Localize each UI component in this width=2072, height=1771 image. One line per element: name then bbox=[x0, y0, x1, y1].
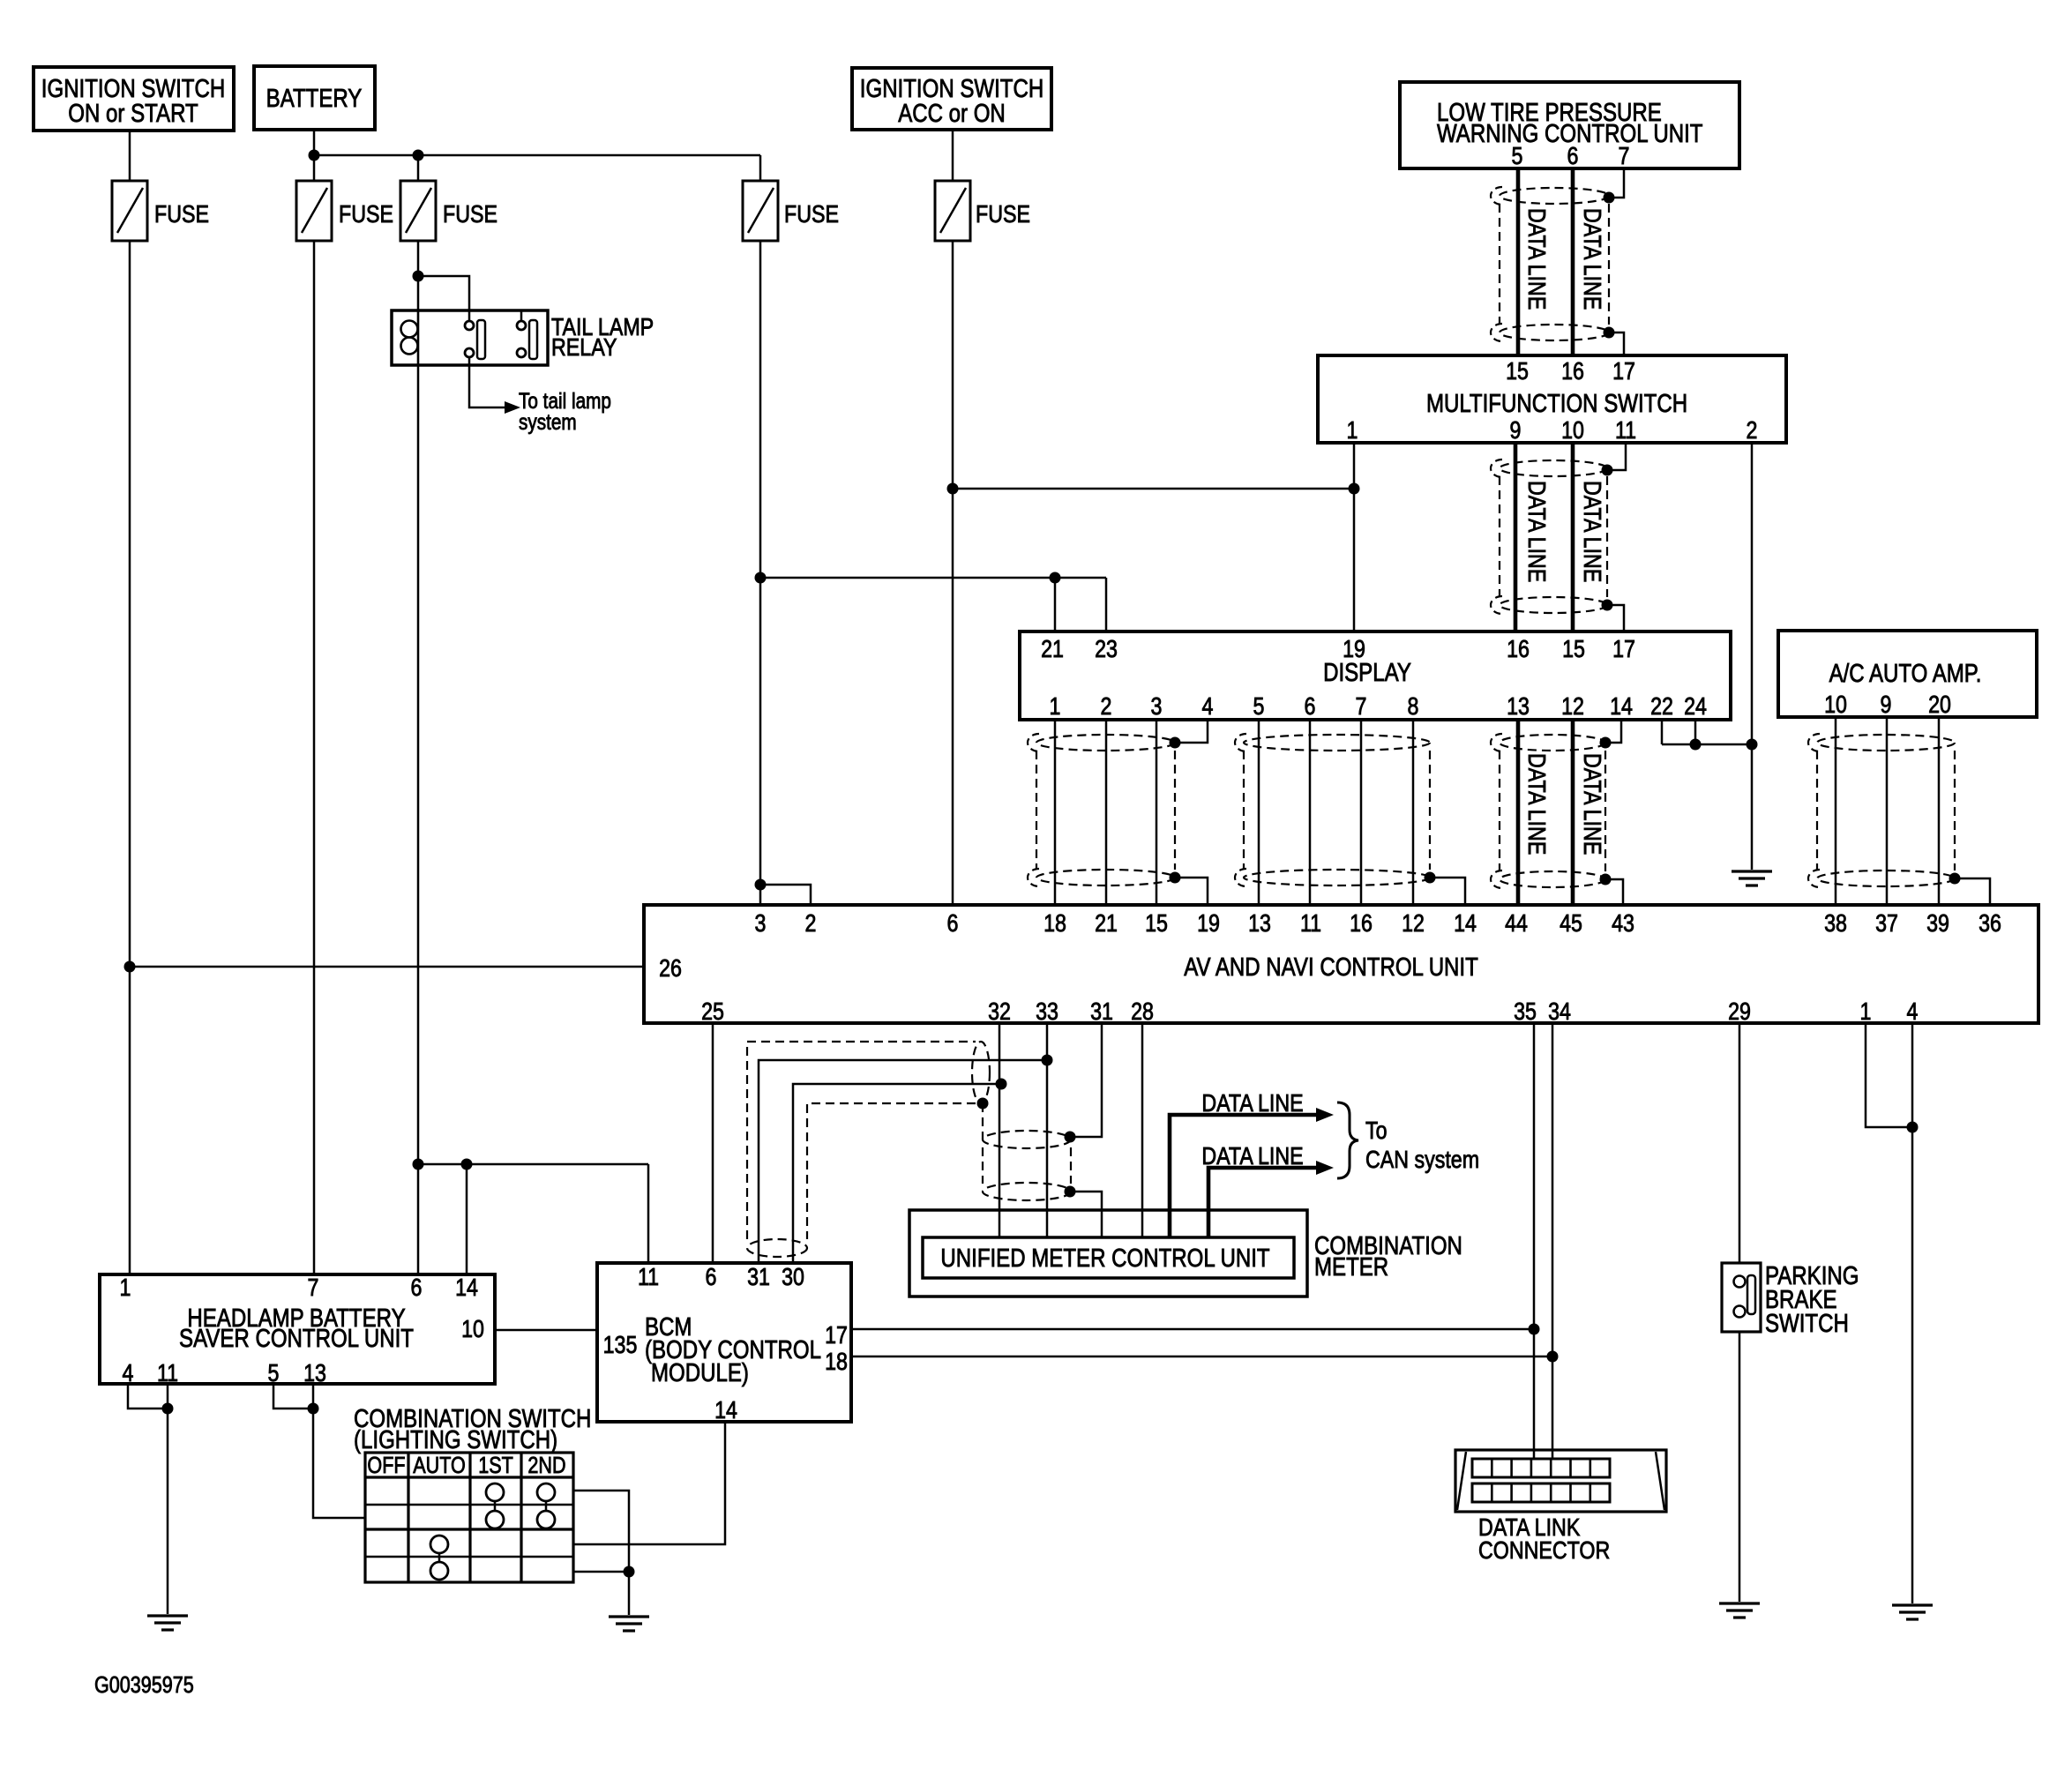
wire: ACC rail down to AV pin 6 bbox=[952, 241, 954, 905]
wire: CAN data line 2 (thick) with arrow bbox=[1208, 1168, 1316, 1237]
wire: net y=1320 relay-coil rail to BCM 11 and headlamp 14 bbox=[418, 1163, 648, 1166]
svg-text:6: 6 bbox=[947, 910, 959, 937]
svg-text:6: 6 bbox=[411, 1274, 423, 1301]
wire: corner down to display pin 23 bbox=[1105, 578, 1108, 631]
junction: headlamp 13 node bbox=[308, 1403, 319, 1415]
wire: BCM 14 to lighting switch auto contact bbox=[573, 1422, 725, 1544]
wire: data line display 12 to AV 45 (thick) bbox=[1571, 720, 1575, 905]
svg-text:DATA LINE: DATA LINE bbox=[1578, 208, 1604, 310]
svg-text:25: 25 bbox=[701, 998, 724, 1025]
box: AV AND NAVI CONTROL UNIT bbox=[644, 905, 2038, 1023]
wire: display 22 stub bbox=[1661, 720, 1664, 744]
svg-text:system: system bbox=[519, 409, 577, 434]
wire: shield B bottom to AV 14 bbox=[1430, 878, 1465, 905]
junction: shield bottom bbox=[1604, 327, 1615, 339]
fuse F5 (ignition ACC or ON) bbox=[935, 181, 1030, 241]
svg-text:11: 11 bbox=[1300, 910, 1321, 937]
junction: BCM18/AV34 bbox=[1547, 1351, 1559, 1363]
wire: multifunction 2 down to ground bbox=[1751, 443, 1754, 870]
svg-text:8: 8 bbox=[1408, 693, 1419, 720]
svg-text:30: 30 bbox=[782, 1264, 804, 1290]
junction: shield-to-shield link bbox=[977, 1098, 989, 1110]
wire: down to ground bbox=[628, 1572, 631, 1615]
wire: AV 32 down to meter bbox=[999, 1023, 1001, 1237]
svg-text:16: 16 bbox=[1350, 910, 1373, 937]
junction: shield bottom (multi-display) bbox=[1602, 600, 1613, 611]
svg-text:ACC or ON: ACC or ON bbox=[898, 99, 1006, 128]
svg-text:10: 10 bbox=[1561, 417, 1584, 444]
svg-text:22: 22 bbox=[1650, 693, 1673, 720]
svg-text:45: 45 bbox=[1560, 910, 1582, 937]
wire: AV 33 down to meter bbox=[1046, 1023, 1049, 1237]
junction: rail x862 at y655 bbox=[755, 572, 767, 584]
svg-text:A/C AUTO AMP.: A/C AUTO AMP. bbox=[1829, 659, 1982, 688]
svg-text:14: 14 bbox=[455, 1274, 478, 1301]
ground: multifunction switch return bbox=[1732, 871, 1772, 885]
wire: shield E bottom into combination meter bbox=[1070, 1192, 1102, 1237]
svg-text:FUSE: FUSE bbox=[976, 201, 1030, 228]
wire: multifunction 1 down to display 19 bbox=[1353, 443, 1356, 631]
svg-text:ON or START: ON or START bbox=[68, 99, 198, 128]
junction: shield top (multi-display) bbox=[1602, 465, 1613, 476]
svg-text:CONNECTOR: CONNECTOR bbox=[1478, 1537, 1610, 1564]
wire: branch to relay contact bbox=[418, 276, 469, 310]
svg-text:26: 26 bbox=[659, 955, 682, 982]
wire: AV 25 to BCM 6 bbox=[712, 1023, 714, 1263]
wire: illumination feed y=655 from fuse F4 to display 21/23 bbox=[760, 577, 1106, 579]
wire: display 7 to AV 16 bbox=[1360, 720, 1363, 905]
svg-text:3: 3 bbox=[755, 910, 767, 937]
svg-text:21: 21 bbox=[1041, 636, 1064, 662]
svg-text:31: 31 bbox=[1090, 998, 1113, 1025]
wire: headlamp 11 down to ground bbox=[167, 1384, 169, 1614]
svg-text:13: 13 bbox=[303, 1360, 326, 1386]
wire: display 5 to AV 13 bbox=[1258, 720, 1260, 905]
svg-text:SAVER CONTROL UNIT: SAVER CONTROL UNIT bbox=[179, 1324, 414, 1353]
switch: COMBINATION SWITCH (LIGHTING SWITCH) table bbox=[354, 1404, 591, 1582]
svg-text:13: 13 bbox=[1507, 693, 1530, 720]
wire: multifunction 11 shield drain bbox=[1607, 443, 1626, 470]
wire: data line low-tire 5 to multifunction 15 (thick) bbox=[1516, 168, 1521, 355]
svg-text:19: 19 bbox=[1343, 636, 1365, 662]
wire: parking brake switch to ground bbox=[1739, 1332, 1741, 1602]
box: MULTIFUNCTION SWITCH bbox=[1318, 355, 1786, 443]
junction: at AV 32 wire bbox=[996, 1079, 1007, 1090]
junction: x474 y1320 bbox=[413, 1159, 424, 1170]
junction: BCM17/AV35 bbox=[1529, 1324, 1540, 1335]
svg-text:DATA LINE: DATA LINE bbox=[1578, 753, 1604, 855]
wire: lighting switch row1 to ground rail bbox=[573, 1491, 629, 1572]
svg-text:36: 36 bbox=[1978, 910, 2001, 937]
svg-text:OFF: OFF bbox=[367, 1453, 405, 1478]
junction: shield E top bbox=[1065, 1132, 1076, 1143]
svg-text:17: 17 bbox=[1612, 636, 1635, 662]
wire: data line low-tire 6 to multifunction 16 (thick) bbox=[1571, 168, 1575, 355]
wire: low-tire pin 7 shield drain top bbox=[1609, 168, 1624, 198]
wire: AV 35 down to data link connector bbox=[1533, 1023, 1536, 1459]
junction: headlamp 11 ground node bbox=[162, 1403, 174, 1415]
svg-text:34: 34 bbox=[1548, 998, 1571, 1025]
wire: AV 28 into combination meter bbox=[1141, 1023, 1144, 1237]
wire: down to display pin 21 bbox=[1054, 578, 1057, 631]
svg-text:DISPLAY: DISPLAY bbox=[1323, 658, 1411, 687]
wire: display 8 to AV 12 bbox=[1412, 720, 1415, 905]
wire: display 6 to AV 11 bbox=[1309, 720, 1312, 905]
svg-text:2ND: 2ND bbox=[527, 1453, 565, 1478]
junction: shield B bottom bbox=[1425, 872, 1436, 884]
junction: shield E bottom bbox=[1065, 1186, 1076, 1198]
svg-text:23: 23 bbox=[1095, 636, 1118, 662]
wire: lighting switch row4 to ground rail bbox=[573, 1571, 629, 1573]
svg-text:6: 6 bbox=[1305, 693, 1316, 720]
svg-text:16: 16 bbox=[1507, 636, 1530, 662]
wire: bus drop to fuse F4 bbox=[759, 155, 762, 181]
wire: AV 1 to AV 4 link bbox=[1866, 1023, 1912, 1127]
box: A/C AUTO AMP. bbox=[1778, 631, 2037, 717]
wire: ignition ON/START to fuse F1 bbox=[129, 131, 131, 181]
svg-text:4: 4 bbox=[1202, 693, 1214, 720]
svg-text:CAN system: CAN system bbox=[1365, 1147, 1479, 1173]
shield tube L-shaped (BCM 31/30 wires) bbox=[747, 1042, 990, 1257]
switch: PARKING BRAKE SWITCH bbox=[1722, 1261, 1859, 1338]
shield tube E (AV 32/33 wires) bbox=[983, 1131, 1071, 1200]
junction: shield A top bbox=[1170, 737, 1181, 749]
wire: a/c 10 to AV 38 bbox=[1835, 717, 1837, 905]
svg-text:5: 5 bbox=[268, 1360, 280, 1386]
junction: rail x147 to AV pin 26 line bbox=[124, 961, 136, 973]
svg-text:UNIFIED METER CONTROL UNIT: UNIFIED METER CONTROL UNIT bbox=[940, 1244, 1269, 1273]
shield tube A (display 1-3) bbox=[1028, 734, 1175, 886]
box: HEADLAMP BATTERY SAVER CONTROL UNIT bbox=[100, 1274, 495, 1384]
wire: AV 31 to shield E top bbox=[1070, 1023, 1102, 1137]
svg-text:1: 1 bbox=[1347, 417, 1358, 444]
wire: battery to bus bbox=[313, 130, 316, 181]
connector: DATA LINK CONNECTOR bbox=[1455, 1450, 1666, 1565]
svg-text:29: 29 bbox=[1728, 998, 1751, 1025]
wire: BCM 30 to AV 32 net bbox=[793, 1084, 1001, 1263]
wire: headlamp 5 to 13 link bbox=[273, 1384, 313, 1409]
ground: lighting switch bbox=[609, 1617, 649, 1631]
wire: ignition ACC to fuse F5 bbox=[952, 130, 954, 181]
svg-text:9: 9 bbox=[1510, 417, 1522, 444]
wire: BCM 17 to AV 35 net bbox=[851, 1328, 1534, 1331]
svg-text:1: 1 bbox=[120, 1274, 131, 1301]
wire: AV 34 down to data link connector bbox=[1552, 1023, 1554, 1459]
wire: headlamp 4 to 11 link bbox=[128, 1384, 168, 1409]
svg-text:4: 4 bbox=[123, 1360, 134, 1386]
wire: headlamp 10 to BCM 135 bbox=[495, 1329, 597, 1332]
svg-text:5: 5 bbox=[1512, 143, 1523, 169]
svg-text:17: 17 bbox=[825, 1322, 848, 1349]
svg-text:FUSE: FUSE bbox=[443, 201, 497, 228]
svg-text:To: To bbox=[1365, 1117, 1388, 1144]
wire: drop to BCM pin 11 bbox=[647, 1164, 650, 1263]
wire: fuse F1 down left rail x=147 bbox=[129, 241, 131, 1274]
wire: display 14 shield drain top bbox=[1605, 720, 1621, 743]
junction: shield D bottom bbox=[1949, 873, 1961, 885]
wire: AV 29 to parking brake switch bbox=[1739, 1023, 1741, 1263]
svg-text:AV AND NAVI CONTROL UNIT: AV AND NAVI CONTROL UNIT bbox=[1184, 953, 1478, 982]
svg-text:DATA LINE: DATA LINE bbox=[1201, 1090, 1303, 1117]
svg-text:14: 14 bbox=[1610, 693, 1633, 720]
wire: display 24 stub bbox=[1694, 720, 1697, 744]
svg-text:G00395975: G00395975 bbox=[94, 1672, 194, 1698]
wire: a/c 9 to AV 37 bbox=[1886, 717, 1889, 905]
svg-text:28: 28 bbox=[1131, 998, 1154, 1025]
svg-text:33: 33 bbox=[1036, 998, 1058, 1025]
svg-text:38: 38 bbox=[1824, 910, 1847, 937]
junction: x529 y1320 bbox=[461, 1159, 473, 1170]
svg-text:14: 14 bbox=[1454, 910, 1477, 937]
svg-text:6: 6 bbox=[1567, 143, 1579, 169]
wire: relay coil output down rail x=474 to headlamp unit pin 6 bbox=[417, 365, 420, 1274]
svg-text:DATA LINE: DATA LINE bbox=[1578, 481, 1604, 582]
svg-text:11: 11 bbox=[1615, 417, 1636, 444]
svg-text:11: 11 bbox=[638, 1264, 659, 1290]
contact circles AUTO position bbox=[430, 1536, 448, 1580]
wire: shield bottom to multifunction pin 17 bbox=[1609, 333, 1624, 355]
wire: battery bus y=176 bbox=[314, 154, 760, 157]
svg-text:FUSE: FUSE bbox=[784, 201, 839, 228]
junction: shield A bottom bbox=[1170, 872, 1181, 884]
shield tube B (display 5-8) bbox=[1235, 734, 1430, 886]
junction: rail x862 at y1003 bbox=[755, 879, 767, 891]
junction: at display 24 bbox=[1690, 739, 1702, 751]
svg-text:43: 43 bbox=[1612, 910, 1634, 937]
wire: data line multifunction 10 to display 15 (thick) bbox=[1571, 443, 1575, 631]
wire: drop to headlamp pin 14 bbox=[466, 1164, 468, 1274]
wire: data line multifunction 9 to display 16 (thick) bbox=[1514, 443, 1518, 631]
power source box: IGNITION SWITCH ON or START bbox=[34, 67, 234, 131]
svg-text:13: 13 bbox=[1248, 910, 1271, 937]
svg-text:DATA LINE: DATA LINE bbox=[1522, 208, 1549, 310]
svg-text:17: 17 bbox=[1612, 358, 1635, 385]
contact circles 1ST position bbox=[486, 1483, 504, 1528]
junction: display 21 tap bbox=[1050, 572, 1061, 584]
junction: battery bus at x356 bbox=[309, 150, 320, 161]
svg-text:7: 7 bbox=[308, 1274, 319, 1301]
junction: ACC feed to multifunction 1 bbox=[1349, 483, 1360, 495]
wire: shield D bottom to AV 36 bbox=[1955, 878, 1990, 905]
svg-text:16: 16 bbox=[1561, 358, 1584, 385]
wire: net to AV pin 26 bbox=[130, 966, 644, 968]
box: BCM (BODY CONTROL MODULE) bbox=[597, 1263, 851, 1422]
junction: relay feed split bbox=[413, 271, 424, 282]
svg-text:24: 24 bbox=[1684, 693, 1707, 720]
svg-text:7: 7 bbox=[1619, 143, 1630, 169]
junction: battery bus at x474 bbox=[413, 150, 424, 161]
power source box: BATTERY bbox=[254, 66, 375, 130]
junction: AV1/AV4 bbox=[1907, 1122, 1919, 1133]
svg-text:18: 18 bbox=[825, 1349, 848, 1375]
wire: relay contact output to tail lamp system with arrow bbox=[469, 365, 505, 407]
svg-text:2: 2 bbox=[1747, 417, 1758, 444]
junction: ground rail x1986 bbox=[1747, 739, 1758, 751]
svg-text:MODULE): MODULE) bbox=[651, 1358, 749, 1387]
ground: AV unit pin 4 bbox=[1892, 1605, 1933, 1619]
svg-text:11: 11 bbox=[157, 1360, 178, 1386]
wire: fuse F2 down rail x=356 to headlamp unit pin 7 bbox=[313, 241, 316, 1274]
svg-text:10: 10 bbox=[1824, 691, 1847, 718]
svg-text:39: 39 bbox=[1926, 910, 1949, 937]
wire: AV 4 down to ground bbox=[1911, 1023, 1914, 1603]
svg-text:SWITCH: SWITCH bbox=[1765, 1309, 1849, 1338]
svg-text:2: 2 bbox=[805, 910, 817, 937]
fuse F2 (battery) bbox=[296, 181, 393, 241]
box: UNIFIED METER CONTROL UNIT bbox=[923, 1237, 1294, 1278]
junction: shield C top bbox=[1600, 737, 1612, 749]
svg-text:3: 3 bbox=[1151, 693, 1163, 720]
wire: display 1 to AV 18 bbox=[1054, 720, 1057, 905]
fuse F4 (battery, illumination) bbox=[743, 181, 839, 241]
svg-text:FUSE: FUSE bbox=[339, 201, 393, 228]
shield tube C (display-AV data lines) bbox=[1491, 734, 1605, 888]
junction: lighting switch ground node bbox=[624, 1566, 635, 1578]
wire: display 2 to AV 21 bbox=[1105, 720, 1108, 905]
svg-text:15: 15 bbox=[1562, 636, 1585, 662]
svg-text:AUTO: AUTO bbox=[413, 1453, 466, 1478]
junction: shield top bbox=[1604, 192, 1615, 204]
brace to CAN system bbox=[1337, 1102, 1358, 1178]
wire: fuse F4 rail down x=862 bbox=[759, 241, 762, 905]
relay K1: TAIL LAMP RELAY bbox=[392, 310, 654, 365]
wire: CAN data line 1 (thick) with arrow bbox=[1170, 1115, 1316, 1237]
svg-text:MULTIFUNCTION SWITCH: MULTIFUNCTION SWITCH bbox=[1426, 389, 1687, 418]
svg-text:44: 44 bbox=[1505, 910, 1528, 937]
svg-text:31: 31 bbox=[747, 1264, 770, 1290]
wire: display 3 to AV 15 bbox=[1156, 720, 1158, 905]
wire: data line display 13 to AV 44 (thick) bbox=[1516, 720, 1521, 905]
svg-text:15: 15 bbox=[1145, 910, 1168, 937]
shield tube D (a/c auto amp) bbox=[1808, 734, 1955, 887]
svg-text:18: 18 bbox=[1043, 910, 1066, 937]
svg-text:FUSE: FUSE bbox=[154, 201, 209, 228]
svg-text:DATA LINE: DATA LINE bbox=[1522, 481, 1549, 582]
wire: a/c 20 to AV 39 bbox=[1938, 717, 1941, 905]
svg-text:135: 135 bbox=[603, 1332, 638, 1358]
svg-text:DATA LINE: DATA LINE bbox=[1522, 753, 1549, 855]
svg-text:7: 7 bbox=[1356, 693, 1367, 720]
junction: at AV 33 wire bbox=[1042, 1055, 1053, 1066]
junction: shield C bottom bbox=[1600, 874, 1612, 885]
svg-text:1: 1 bbox=[1050, 693, 1061, 720]
svg-text:12: 12 bbox=[1561, 693, 1584, 720]
svg-text:32: 32 bbox=[988, 998, 1011, 1025]
wire: fuse F3 to tail lamp relay coil bbox=[417, 241, 420, 310]
svg-text:20: 20 bbox=[1928, 691, 1951, 718]
contact circles 2ND position bbox=[537, 1483, 555, 1528]
shield tube around data lines (low tire) bbox=[1491, 187, 1609, 341]
svg-text:METER: METER bbox=[1314, 1252, 1388, 1282]
ground: parking brake switch bbox=[1719, 1603, 1760, 1618]
wire: BCM 31 to AV 33 net bbox=[759, 1060, 1047, 1263]
svg-text:RELAY: RELAY bbox=[551, 334, 617, 361]
wire: branch to AV pin 2 bbox=[760, 885, 811, 905]
svg-text:BATTERY: BATTERY bbox=[266, 84, 363, 113]
svg-text:DATA LINE: DATA LINE bbox=[1201, 1143, 1303, 1169]
svg-text:19: 19 bbox=[1197, 910, 1220, 937]
wire: shield C bottom to AV 43 bbox=[1605, 879, 1623, 905]
svg-text:4: 4 bbox=[1907, 998, 1919, 1025]
box: COMBINATION METER outline bbox=[909, 1210, 1307, 1296]
svg-text:5: 5 bbox=[1253, 693, 1265, 720]
fuse F1 (ignition ON or START) bbox=[112, 181, 209, 241]
svg-text:37: 37 bbox=[1875, 910, 1898, 937]
svg-text:12: 12 bbox=[1402, 910, 1425, 937]
junction: ACC rail at x1080 bbox=[947, 483, 959, 495]
fuse F3 (battery, tail lamp relay) bbox=[400, 181, 497, 241]
svg-text:35: 35 bbox=[1514, 998, 1537, 1025]
ground: headlamp saver unit bbox=[147, 1616, 188, 1630]
svg-text:14: 14 bbox=[714, 1397, 737, 1424]
wire: display 22/24 ground link y=844 bbox=[1662, 744, 1752, 746]
svg-text:6: 6 bbox=[706, 1264, 717, 1290]
wire: ACC feed line y=554 bbox=[953, 488, 1354, 490]
svg-text:9: 9 bbox=[1881, 691, 1892, 718]
svg-text:2: 2 bbox=[1101, 693, 1112, 720]
wire: display 4 shield drain top bbox=[1175, 720, 1208, 743]
svg-text:(LIGHTING SWITCH): (LIGHTING SWITCH) bbox=[354, 1425, 557, 1454]
svg-text:15: 15 bbox=[1506, 358, 1529, 385]
box: LOW TIRE PRESSURE WARNING CONTROL UNIT bbox=[1400, 82, 1739, 168]
svg-text:10: 10 bbox=[461, 1316, 484, 1342]
wire: headlamp 13 down to lighting switch bbox=[313, 1384, 365, 1518]
svg-text:1ST: 1ST bbox=[478, 1453, 513, 1478]
wire: bus drop to fuse F3 bbox=[417, 155, 420, 181]
svg-text:21: 21 bbox=[1095, 910, 1118, 937]
shield link dashed bbox=[982, 1103, 984, 1140]
shield tube around data lines (multi-display) bbox=[1491, 460, 1607, 614]
wire: shield A bottom to AV 19 bbox=[1175, 878, 1208, 905]
box: DISPLAY bbox=[1020, 631, 1731, 720]
wire: BCM 18 to AV 34 net bbox=[851, 1356, 1552, 1358]
wire: shield bottom to display 17 bbox=[1607, 605, 1624, 631]
svg-text:1: 1 bbox=[1860, 998, 1872, 1025]
power source box: IGNITION SWITCH ACC or ON bbox=[852, 68, 1051, 130]
